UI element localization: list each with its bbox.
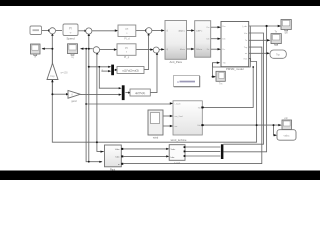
svg-text:PI_d: PI_d bbox=[124, 36, 130, 40]
svg-text:wind_turbine: wind_turbine bbox=[171, 138, 187, 142]
wire sum3 to PI q bbox=[100, 49, 117, 51]
wire vdc line tee down to G bbox=[274, 125, 276, 135]
wire mux1 in2 stub bbox=[101, 70, 110, 72]
wire scope2 feed and sum3 input bbox=[81, 48, 93, 50]
arrowheads bbox=[42, 25, 282, 163]
svg-text:uw_2wd: uw_2wd bbox=[175, 116, 184, 118]
wire W out2 to D in3 bbox=[163, 125, 171, 127]
wire B out2 to C in2 bbox=[211, 38, 220, 40]
junction D torque riser bbox=[256, 124, 258, 126]
junction at mux1 feed bbox=[88, 66, 90, 68]
sum S4 bbox=[153, 47, 159, 53]
junction at scope1 tap bbox=[51, 48, 53, 50]
wire sum1 to Speed PI bbox=[56, 30, 62, 32]
block D wind turbine bbox=[171, 101, 204, 142]
scope2 bbox=[68, 44, 78, 59]
wire PI d to sum4a bbox=[136, 30, 146, 32]
wire sum4 to block A in2 bbox=[159, 48, 164, 50]
wire W out1 to D in2 bbox=[163, 115, 171, 117]
wire Tm up into C port4 bbox=[213, 63, 220, 67]
wire sum3 bottom feedback down to E in1 bbox=[97, 53, 104, 151]
wire A out1 to B in1 bbox=[187, 30, 194, 32]
wire D in1 feed from x86 vertical bbox=[86, 103, 171, 105]
wire gain1 output up to sum1 bbox=[51, 49, 53, 64]
scope Te bbox=[271, 30, 281, 45]
wire D out1 torque up bbox=[203, 67, 254, 107]
svg-text:Tm: Tm bbox=[198, 107, 201, 109]
svg-text:Tm: Tm bbox=[219, 83, 222, 85]
junction E in1 drop on wm line bbox=[266, 25, 268, 27]
gain G1 triangle up bbox=[47, 63, 68, 79]
svg-text:wind: wind bbox=[153, 135, 159, 139]
wire sum4a to block A in1 bbox=[152, 30, 164, 32]
wire mux1 in1 from x88 vertical bbox=[89, 66, 110, 68]
junction i_abc tee bbox=[212, 76, 214, 78]
svg-text:Plant: Plant bbox=[110, 168, 116, 171]
block E measurement bbox=[105, 145, 124, 171]
wire Fcn2 out up to sum4 bbox=[150, 54, 157, 93]
junction vdc line tee to G bbox=[202, 106, 204, 108]
wire B out3 to C in3 bbox=[211, 48, 220, 50]
wire C out3 to scope Te bbox=[249, 39, 270, 41]
scope H (Tm scope) bbox=[216, 71, 225, 85]
block C PMSM model bbox=[221, 22, 249, 72]
tag Tsp rounded bbox=[270, 50, 286, 58]
wire F out2 to mux3 bbox=[185, 150, 220, 152]
mux M2 bbox=[122, 85, 125, 100]
wire Wref to sum1 bbox=[42, 30, 49, 32]
svg-text:PI: PI bbox=[69, 27, 72, 31]
wire mux2 out to Fcn2 bbox=[125, 92, 129, 94]
wire PI q to sum4 bbox=[136, 49, 153, 51]
svg-text:Tm: Tm bbox=[223, 63, 226, 65]
junction at E in2 drop bbox=[85, 48, 87, 50]
block PI current q bbox=[117, 44, 136, 59]
block PI current d bbox=[118, 25, 136, 40]
wire C out2 down right bundle bbox=[223, 33, 263, 144]
svg-text:u(2)*u(1): u(2)*u(1) bbox=[135, 91, 145, 95]
junction wm line at vdc crossing bbox=[273, 124, 275, 126]
wire D out2 to vdc scope bbox=[203, 124, 281, 126]
sum S4a bbox=[146, 28, 152, 34]
junction at mux2 dropper bbox=[96, 141, 98, 143]
wire tee down to E in2 bbox=[86, 49, 102, 162]
svg-text:PI: PI bbox=[125, 46, 128, 50]
block powergui Continuous bbox=[174, 76, 200, 87]
wire B out1 to C in1 bbox=[211, 26, 220, 28]
svg-text:m: m bbox=[118, 164, 120, 166]
svg-text:wr: wr bbox=[245, 52, 248, 55]
sum S3 bbox=[93, 47, 99, 53]
svg-text:Load: Load bbox=[174, 161, 180, 165]
mux M1 bbox=[111, 65, 114, 76]
wire Fcn1 out up to sum4a bbox=[144, 34, 149, 69]
wire A out2 to B in2 bbox=[187, 48, 194, 50]
block Fcn1 bbox=[117, 67, 144, 74]
svg-text:I_abc: I_abc bbox=[241, 26, 248, 28]
wire F out3 to mux3 bbox=[185, 155, 220, 157]
junction D out1 port bbox=[202, 124, 204, 126]
svg-text:PMSM_model: PMSM_model bbox=[226, 67, 244, 71]
block Wref (reference constant) bbox=[30, 26, 42, 35]
wire sum2 down to D in1 bbox=[88, 35, 90, 162]
wire i_abc junction down to mux3 output line bbox=[223, 26, 266, 152]
svg-text:DAlPu: DAlPu bbox=[196, 30, 203, 33]
wire scope1 feed bbox=[42, 48, 52, 50]
svg-text:Speed: Speed bbox=[66, 37, 75, 41]
svg-text:Anti_Para: Anti_Para bbox=[170, 60, 183, 64]
sum S1 bbox=[49, 28, 55, 34]
wire C out6 wm feedback long loop bbox=[52, 35, 256, 143]
wire dropper to mux2 in1 bbox=[99, 67, 120, 88]
svg-text:Tsp: Tsp bbox=[276, 53, 281, 57]
wire E out1 to F in1 bbox=[123, 148, 167, 150]
scope1 bbox=[31, 44, 41, 59]
svg-text:w=150: w=150 bbox=[61, 71, 69, 74]
wire gain2 out to mux2 in2 bbox=[80, 94, 120, 96]
svg-text:gain2: gain2 bbox=[71, 101, 77, 103]
wire junction to gain2 bbox=[52, 93, 66, 95]
wire Speed PI to sum2 bbox=[78, 30, 85, 32]
svg-text:dAlpha: dAlpha bbox=[178, 30, 186, 33]
svg-text:Ksp: Ksp bbox=[50, 74, 55, 78]
svg-text:thm: thm bbox=[244, 57, 248, 60]
svg-text:u(1)*u(2)+u(3): u(1)*u(2)+u(3) bbox=[122, 69, 138, 73]
junction Tm scope tee bbox=[252, 66, 254, 68]
wire E out2 to F in2 bbox=[123, 155, 167, 157]
sum S2 bbox=[86, 28, 92, 34]
wire C out5 to tag bbox=[249, 52, 269, 54]
block Fcn2 bbox=[130, 89, 150, 96]
scope i_abc bbox=[281, 20, 291, 35]
bottom letterbox bar bbox=[0, 171, 320, 181]
block A dq2alphabeta bbox=[165, 21, 187, 64]
white canvas bbox=[0, 0, 320, 180]
gain G2 triangle right bbox=[68, 91, 80, 103]
junction sum2 line at scope2 tap bbox=[88, 48, 90, 50]
svg-text:DBeta: DBeta bbox=[196, 48, 203, 51]
wire gain1 input from below bbox=[51, 79, 53, 94]
junction at gain2 tap bbox=[51, 93, 53, 95]
block F load bbox=[169, 145, 185, 165]
svg-text:w: w bbox=[34, 56, 36, 59]
wire F out1 to mux3 bbox=[185, 146, 220, 148]
wire C out1 to scope i_abc bbox=[249, 25, 280, 27]
svg-text:i_fault: i_fault bbox=[174, 103, 181, 106]
scope vdc bbox=[282, 117, 292, 129]
svg-text:-s-: -s- bbox=[69, 31, 72, 34]
svg-text:PI: PI bbox=[125, 27, 128, 31]
wire mux1 out to Fcn1 bbox=[114, 69, 116, 71]
mux M3 bbox=[221, 144, 224, 159]
wire sum2 to PI d bbox=[92, 30, 117, 32]
block Speed PI bbox=[63, 24, 78, 41]
wire C out4 down to E out3 line bbox=[123, 47, 261, 164]
block G vabc rounded bbox=[277, 130, 296, 141]
svg-text:Vm: Vm bbox=[244, 33, 247, 35]
svg-text:vw: vw bbox=[175, 126, 178, 128]
wire near C right edge vertical bbox=[213, 26, 251, 67]
svg-text:vabc: vabc bbox=[284, 133, 291, 137]
wire Tm tee down to scope H bbox=[213, 63, 215, 77]
block B alphabeta2abc bbox=[195, 21, 211, 58]
svg-text:tBeta: tBeta bbox=[180, 48, 186, 51]
block W wind source bbox=[148, 110, 163, 139]
top letterbox bar bbox=[0, 0, 320, 6]
svg-text:PI_q: PI_q bbox=[124, 55, 130, 59]
